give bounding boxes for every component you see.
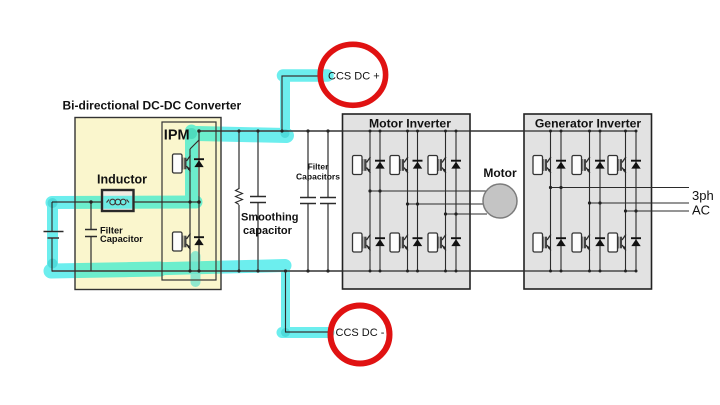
diode D1 [194,159,204,167]
node: motor inverter phase V tap [406,202,409,205]
node: resistor/bus junctions [237,129,240,132]
IGBT Q5 [390,156,408,175]
diode D10 [556,238,566,246]
diode D13 [631,161,641,169]
wire: DC+ bus over inverters [199,130,637,132]
capacitor C1 filter [85,230,97,237]
svg-text:Generator Inverter: Generator Inverter [535,117,642,131]
highlight trace: IPM upper leg [185,131,198,200]
wire: generator inverter phase W [626,210,690,212]
Motor Inverter enclosure [343,114,471,289]
Generator Inverter enclosure [524,114,652,289]
svg-text:Smoothing: Smoothing [241,212,298,224]
diode D9 [556,161,566,169]
resistor R1 (bleeder) [236,189,243,205]
wire: smoothing capacitor upper lead [257,131,259,196]
wire: generator inverter leg 3 transistor rail [625,131,627,271]
svg-text:Filter: Filter [308,162,329,172]
wire: bleeder resistor upper lead [238,131,240,189]
diode D7 [451,161,461,169]
wire: filter capacitor upper lead [90,202,92,229]
highlight trace: left battery drop [47,205,58,264]
svg-text:CCS DC -: CCS DC - [336,327,385,339]
highlight trace: CCS DC- drop [281,264,290,333]
diode D12 [595,238,605,246]
highlight trace: CCS DC- lead [282,327,329,338]
diode D5 [413,161,423,169]
battery B1 [44,232,64,239]
IGBT Q14 [608,233,626,252]
wire: DC- bus over inverters [52,270,637,272]
wire: motor inverter leg 3 diode rail [455,131,457,271]
wire: filter capacitor lower lead [90,237,92,272]
node: CCS DC+ tap [280,129,283,132]
IGBT Q2 (IPM lower) [173,232,191,251]
wire: DC+ bus [199,130,637,132]
node: CCS DC- tap [284,269,287,272]
inductor L1 [102,190,134,211]
IGBT Q9 [533,156,551,175]
wire: filter capacitor C3 lower lead [307,204,309,272]
wire: CCS DC+ lead [282,76,330,131]
wire: generator inverter leg 2 diode rail [599,131,601,271]
node: IPM midpoint [197,200,201,204]
diode D4 [375,238,385,246]
wire: generator inverter leg 2 transistor rail [589,131,591,271]
motor M1 [483,184,517,218]
svg-text:capacitor: capacitor [243,225,293,237]
highlight trace: DC- bus [51,269,160,271]
svg-text:CCS DC +: CCS DC + [328,71,380,83]
IPM enclosure [162,122,216,280]
IGBT Q1 (IPM upper) [173,154,191,173]
wire: motor inverter leg 3 transistor rail [445,131,447,271]
IGBT Q12 [572,233,590,252]
wire: smoothing capacitor lower lead [257,203,259,272]
wire: generator inverter leg 1 transistor rail [550,131,552,271]
node: motor inverter phase W tap [444,212,447,215]
wire: generator inverter leg 3 diode rail [635,131,637,271]
wire: generator inverter leg 1 diode rail [560,131,562,271]
node: generator inverter leg 2 bus junctions [588,130,591,133]
node: generator inverter phase V tap [588,201,591,204]
wire: IPM diode leg [198,131,200,271]
node: motor inverter leg 3 bus junctions [444,130,447,133]
svg-text:Inductor: Inductor [97,173,147,187]
IGBT Q8 [428,233,446,252]
node: generator inverter leg 1 bus junctions [549,130,552,133]
highlight trace: CCS DC+ lead [283,69,328,82]
wire: motor inverter phase V [408,203,488,205]
wire: IPM top tie [190,140,199,149]
node: smoothing cap junctions [256,129,259,132]
wire: CCS DC- lead [286,271,333,332]
IGBT Q13 [608,156,626,175]
svg-text:Motor Inverter: Motor Inverter [369,117,451,131]
IGBT Q11 [572,156,590,175]
wire: IPM transistor leg [189,149,191,271]
connector CCS DC+ (red circle) [320,44,385,105]
node: IPM DC+ node [197,129,201,133]
IGBT Q4 [353,233,371,252]
node: inductor/filter junction [89,200,92,203]
svg-text:Bi-directional DC-DC Converter: Bi-directional DC-DC Converter [63,99,242,113]
wire: motor inverter leg 2 diode rail [417,131,419,271]
node: motor inverter leg 1 bus junctions [369,130,372,133]
IGBT Q6 [390,233,408,252]
diode D3 [375,161,385,169]
wire: generator inverter phase V [590,202,690,204]
connector CCS DC+ interior [320,44,385,105]
wire: generator inverter phase U [551,187,690,189]
svg-text:Capacitor: Capacitor [100,234,143,244]
svg-text:Capacitors: Capacitors [296,172,340,182]
node: generator inverter phase W tap [624,209,627,212]
highlight trace: IPM lower leg stub [191,256,201,282]
highlight overlap blobs [48,128,291,337]
svg-text:3ph: 3ph [692,188,714,203]
wire: motor inverter leg 1 transistor rail [369,131,371,271]
diode D8 [451,238,461,246]
diode D6 [413,238,423,246]
node: filter cap junctions [306,129,309,132]
capacitor C4 (DC link filter) [320,198,336,204]
wire: motor inverter phase U [370,190,487,192]
node: motor inverter leg 2 bus junctions [406,130,409,133]
diode D11 [595,161,605,169]
svg-text:AC: AC [692,203,710,218]
node: generator inverter phase U tap [549,186,552,189]
wire: filter capacitor C4 upper lead [327,131,329,198]
capacitor C2 (smoothing) [250,197,266,203]
wire: motor inverter leg 1 diode rail [379,131,381,271]
wire: inductor net [52,201,199,203]
highlight trace: DC+ bus into IPM [197,134,287,136]
node: motor inverter phase U tap [368,189,371,192]
DC-DC converter enclosure [75,118,221,290]
wire: filter capacitor C3 upper lead [307,131,309,198]
diode D14 [631,238,641,246]
highlight trace: inductor wire [52,196,196,210]
connector CCS DC- (red circle) [331,306,390,364]
wire: battery negative drop [51,238,53,272]
wire: motor inverter leg 2 transistor rail [407,131,409,271]
svg-text:Motor: Motor [483,166,517,180]
node: generator inverter leg 3 bus junctions [624,130,627,133]
connector CCS DC- interior [331,306,390,364]
wire: filter capacitor C4 lower lead [327,204,329,272]
diode D2 [194,237,204,245]
capacitor C3 (DC link filter) [300,198,316,204]
node: IPM DC- nodes [188,269,191,272]
wire: battery positive drop [51,202,53,231]
IGBT Q7 [428,156,446,175]
wire: bleeder resistor lower lead [238,205,240,271]
wire: motor inverter phase W [446,213,488,215]
wire: DC- bus [52,270,637,272]
IGBT Q3 [353,156,371,175]
IGBT Q10 [533,233,551,252]
